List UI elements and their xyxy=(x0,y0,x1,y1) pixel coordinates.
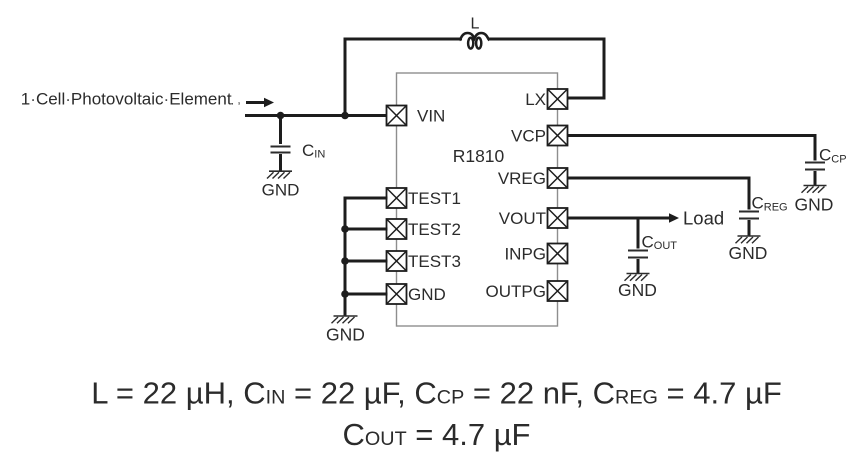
ground GND at CREG xyxy=(729,236,768,263)
wire top left segment xyxy=(344,38,463,41)
svg-text:OUTPG: OUTPG xyxy=(486,282,546,301)
svg-text:GND: GND xyxy=(729,243,768,263)
inductor L xyxy=(460,16,490,49)
svg-text:INPG: INPG xyxy=(504,245,546,264)
svg-text:Load: Load xyxy=(683,207,724,228)
ground GND at TEST bus xyxy=(326,316,365,344)
svg-text:TEST3: TEST3 xyxy=(408,252,461,271)
op-amp U1 R1810 body xyxy=(397,73,558,326)
node input label xyxy=(21,89,241,108)
svg-text:R1810: R1810 xyxy=(453,146,505,166)
ground GND at CCP xyxy=(795,186,834,215)
svg-text:GND: GND xyxy=(795,195,834,215)
svg-text:.: . xyxy=(231,92,235,107)
svg-text:VREG: VREG xyxy=(498,169,546,188)
svg-text:VCP: VCP xyxy=(511,127,546,146)
wire bus to TEST3 xyxy=(345,260,388,263)
svg-text:1·Cell·Photovoltaic·Element: 1·Cell·Photovoltaic·Element xyxy=(21,89,232,108)
pin TEST2 xyxy=(387,219,461,239)
wire input arrow xyxy=(246,98,274,108)
pin TEST1 xyxy=(387,188,461,208)
wire VCP to CCP xyxy=(568,134,817,161)
svg-text:,: , xyxy=(238,95,241,107)
wire TEST bus vertical xyxy=(344,197,347,316)
svg-text:L: L xyxy=(471,16,480,33)
wire bus to GND pin xyxy=(345,293,388,296)
wire input to VIN xyxy=(245,114,388,117)
svg-text:VOUT: VOUT xyxy=(499,209,546,228)
node junction TEST3 xyxy=(341,257,349,265)
ground GND at CIN xyxy=(262,171,300,199)
pin VCP xyxy=(511,126,567,146)
svg-text:VIN: VIN xyxy=(417,107,445,126)
pin VIN xyxy=(387,106,446,126)
node junction TEST2 xyxy=(341,225,349,233)
svg-text:GND: GND xyxy=(262,180,300,199)
node junction GND xyxy=(341,290,349,298)
wire top right segment xyxy=(488,38,606,41)
svg-text:TEST2: TEST2 xyxy=(408,220,461,239)
node junction at inductor branch xyxy=(341,112,349,120)
svg-text:GND: GND xyxy=(408,285,446,304)
svg-text:LX: LX xyxy=(525,90,546,109)
node junction at CIN xyxy=(277,112,285,120)
pin LX xyxy=(525,89,567,109)
wire bus to TEST1 xyxy=(344,197,388,200)
capacitor COUT xyxy=(628,251,648,274)
pin TEST3 xyxy=(387,251,461,271)
pin OUTPG xyxy=(486,281,568,301)
wire bus to TEST2 xyxy=(345,228,388,231)
pin INPG xyxy=(504,244,567,264)
wire VREG to CREG xyxy=(568,177,751,210)
capacitor CREG xyxy=(739,212,759,236)
wire VOUT to Load xyxy=(568,207,725,228)
svg-text:GND: GND xyxy=(618,280,657,300)
wire up branch to inductor xyxy=(344,38,347,118)
capacitor CCP xyxy=(805,163,825,186)
svg-text:GND: GND xyxy=(326,324,365,344)
svg-text:TEST1: TEST1 xyxy=(408,189,461,208)
pin VREG xyxy=(498,168,568,188)
pin VOUT xyxy=(499,208,568,228)
wire COUT branch xyxy=(637,218,640,249)
ground GND at COUT xyxy=(618,274,657,301)
wire right drop to LX xyxy=(568,38,606,100)
svg-text:L = 22 µH, CIN = 22 µF, CCP =: L = 22 µH, CIN = 22 µF, CCP = 22 nF, CRE… xyxy=(91,376,782,411)
wire CIN top xyxy=(279,116,282,145)
pin GND xyxy=(387,284,446,304)
capacitor CIN xyxy=(271,147,291,171)
